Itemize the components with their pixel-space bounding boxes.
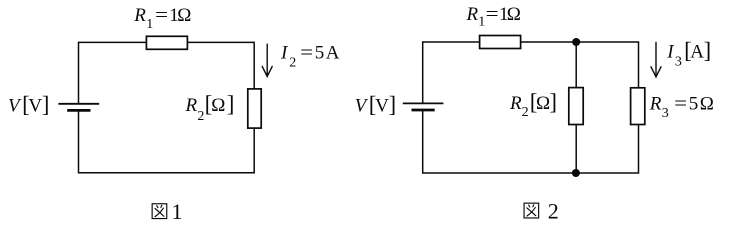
svg-text:=: = (486, 4, 499, 25)
svg-text:A: A (326, 43, 340, 64)
svg-text:5: 5 (689, 93, 699, 114)
svg-text:R: R (185, 95, 198, 116)
svg-text:3: 3 (662, 106, 669, 121)
svg-text:]: ] (227, 92, 235, 117)
svg-text:V: V (28, 95, 42, 116)
svg-text:Ω: Ω (536, 93, 550, 114)
svg-text:2: 2 (548, 198, 559, 223)
svg-text:R: R (466, 4, 479, 25)
svg-text:1: 1 (172, 199, 183, 224)
svg-text:]: ] (704, 38, 712, 63)
svg-text:R: R (509, 93, 522, 114)
svg-text:2: 2 (522, 105, 529, 120)
svg-text:Ω: Ω (507, 4, 521, 25)
svg-text:R: R (133, 5, 146, 26)
svg-text:]: ] (549, 90, 557, 115)
svg-text:1: 1 (478, 14, 485, 29)
svg-text:Ω: Ω (211, 95, 225, 116)
svg-text:A: A (690, 41, 704, 62)
svg-text:]: ] (389, 92, 397, 117)
svg-text:R: R (649, 93, 662, 114)
svg-text:5: 5 (315, 43, 325, 64)
svg-text:2: 2 (289, 55, 296, 70)
svg-text:V: V (375, 95, 389, 116)
svg-text:=: = (155, 5, 168, 26)
svg-text:3: 3 (675, 55, 682, 70)
svg-text:=: = (674, 93, 687, 114)
svg-text:=: = (300, 43, 313, 64)
svg-text:Ω: Ω (177, 5, 191, 26)
svg-text:1: 1 (146, 17, 153, 32)
svg-text:]: ] (42, 92, 50, 117)
svg-text:2: 2 (197, 109, 204, 124)
svg-text:Ω: Ω (700, 93, 714, 114)
